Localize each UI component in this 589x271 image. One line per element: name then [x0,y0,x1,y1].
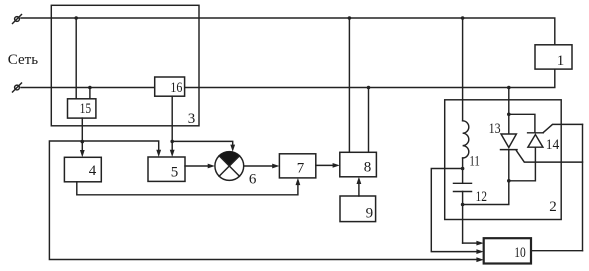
mixer 6 [215,152,244,181]
block 5 [148,157,185,181]
svg-text:13: 13 [489,121,501,137]
arrow into mixer 6 left [208,164,215,169]
wire L1 to block 8 [348,18,350,152]
arrow into mixer 6 top [230,145,235,152]
wire mixer 6 to block 7 [244,165,273,167]
node where 15-4 wire crosses bus [81,140,85,144]
arrow into block 5 from 16 [170,150,175,157]
wire block 10 output [531,250,583,252]
node capacitor bottom / thyristor return [461,203,465,207]
arrow into block 10 input 1 [476,241,483,246]
arrow into block 10 input 3 [476,257,483,262]
wire L2 to block 15 [89,88,91,99]
node on L1 feeding block 8 [348,16,352,20]
arrow into block 5 from bus [156,150,161,157]
block 9 [340,196,376,222]
node on L2 feeding block 15 [88,86,92,90]
arrow into block 8 left [333,163,340,168]
wire L1 to block 15 [75,18,77,99]
wire L1 down to inductor 11 [462,18,464,121]
capacitor 12 [454,169,472,244]
arrow into block 8 bottom [357,177,362,184]
svg-text:1: 1 [557,53,565,69]
block 8 [340,152,377,177]
svg-text:Сеть: Сеть [8,52,38,68]
svg-text:8: 8 [364,159,372,175]
wire block 5 to mixer 6 [185,165,209,167]
svg-text:14: 14 [546,137,560,153]
feedback bus: top rail, left rail and bottom rail [49,141,476,260]
node on L1 feeding LC branch [461,16,465,20]
wire mains line L2 (bottom) [21,69,555,87]
gate wire of thyristor 13 [516,151,582,162]
wire capacitor bottom to block 10 input 1 [463,242,477,244]
wire LC tap to block 10 input 2 [431,169,476,252]
wire L2 down to thyristor 13 [508,88,510,135]
svg-text:5: 5 [171,164,179,180]
wire gate feedback rail [582,124,584,250]
block 10 [484,238,531,263]
wire branch to thyristor 14 anode [509,114,535,133]
svg-text:11: 11 [469,153,480,169]
svg-text:6: 6 [249,171,257,187]
block 2 enclosure [445,100,562,220]
wire block 7 to block 8 [316,164,334,166]
block 3 enclosure [51,5,199,126]
mains terminal bottom [13,83,22,92]
node branch to thyristor 14 [507,113,511,117]
svg-text:9: 9 [366,205,374,221]
block 16 [155,77,185,96]
wire L2 to block 8 [368,88,370,153]
node on L1 feeding block 15 [74,16,78,20]
inductor 11 [463,121,469,158]
arrow into block 10 input 2 [476,249,483,254]
wire block 16 to block 5 [171,96,173,150]
block 1 [535,45,572,69]
wire mains line L1 (top) [21,18,555,45]
svg-text:3: 3 [188,111,196,127]
wire block 9 to block 8 [358,183,360,196]
node on L2 feeding block 8 [367,86,371,90]
svg-text:16: 16 [170,80,182,96]
svg-text:7: 7 [297,160,305,176]
svg-text:2: 2 [549,199,557,215]
block 7 [279,154,315,178]
svg-text:4: 4 [89,163,97,179]
node on 16-5 wire feeding mixer 6 [170,140,174,144]
node on L2 feeding thyristor 13 [507,86,511,90]
arrow into block 4 [80,150,85,157]
svg-text:12: 12 [476,189,488,205]
svg-text:10: 10 [514,245,526,261]
gate wire of thyristor 14 [543,124,582,132]
wire block 4 to block 7 [77,182,298,195]
mains terminal top [13,15,22,24]
wire 16-5 node to mixer 6 [172,141,233,145]
block 15 [68,99,96,118]
node LC tap [461,167,465,171]
wire thyristor rail return [463,181,509,205]
node thyristor junction bottom [507,179,511,183]
wire block 15 to block 4 [81,118,83,150]
block 4 [64,157,101,182]
svg-text:15: 15 [80,101,92,117]
arrow into block 7 bottom [296,178,301,185]
arrow into block 7 left [272,164,279,169]
thyristor 14 [509,133,543,181]
thyristor 13 [501,134,518,181]
